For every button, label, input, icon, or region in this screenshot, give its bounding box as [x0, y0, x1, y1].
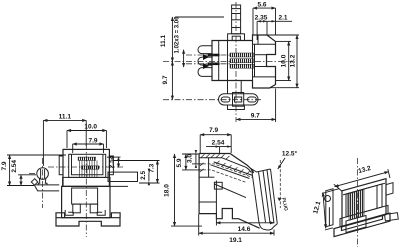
dim 7.9 left rotated — [1, 155, 66, 186]
contact block — [349, 190, 364, 221]
dim 13.2 right — [267, 35, 299, 88]
flange foot — [228, 105, 245, 110]
svg-text:2.5: 2.5 — [140, 171, 147, 180]
right lock bar — [108, 172, 138, 181]
dim 9.7 left — [162, 62, 172, 100]
contact hatch bands — [230, 53, 254, 68]
body internal verticals — [219, 35, 258, 81]
svg-text:10.0: 10.0 — [84, 124, 97, 131]
svg-text:10.0: 10.0 — [281, 54, 288, 67]
outer block — [342, 179, 386, 227]
svg-text:2.54: 2.54 — [212, 140, 225, 147]
jack opening inner — [72, 154, 103, 174]
svg-text:19.1: 19.1 — [229, 237, 242, 244]
contact dash line A — [203, 164, 253, 178]
svg-text:18.0: 18.0 — [164, 184, 171, 197]
dim 1.02x3=3.06 — [175, 16, 184, 67]
body outline — [199, 154, 260, 229]
latch circle V4 — [325, 196, 331, 202]
centerline V4 — [356, 158, 358, 247]
latch arm inner — [222, 158, 251, 173]
dim 11.1 — [43, 114, 86, 166]
jack opening — [69, 154, 106, 177]
top lip — [343, 183, 385, 195]
internal lines — [199, 158, 246, 214]
svg-text:13.2: 13.2 — [290, 54, 297, 67]
svg-text:14.6: 14.6 — [238, 226, 251, 233]
svg-text:9.7: 9.7 — [162, 75, 169, 84]
dim 2.54 left rotated — [11, 160, 36, 186]
latch hook — [31, 179, 38, 186]
base plate — [334, 213, 390, 237]
pin black bars — [203, 54, 220, 69]
right lock bar V4 — [385, 213, 399, 221]
svg-text:12.1: 12.1 — [312, 200, 322, 214]
dim 14.6 — [216, 219, 274, 233]
mounting flange (stadium) — [219, 93, 259, 107]
dim 18.0 rotated — [164, 154, 203, 226]
svg-text:11.1: 11.1 — [59, 114, 72, 121]
tab base — [228, 34, 245, 41]
latch piece inner line — [328, 207, 330, 226]
svg-text:13.2: 13.2 — [358, 165, 372, 175]
latch piece — [326, 189, 333, 227]
skewed front view group — [326, 172, 393, 239]
horizontal centerline — [48, 166, 124, 168]
contacts upper row — [78, 157, 96, 160]
neck below body — [228, 81, 242, 94]
bottom tab — [346, 215, 366, 232]
dim 3.0 rotated — [186, 150, 203, 168]
contacts lower row — [81, 166, 99, 169]
svg-text:3.0: 3.0 — [186, 154, 193, 163]
dim 5.6 — [253, 2, 276, 36]
plug face stack — [252, 169, 278, 230]
svg-text:5.6: 5.6 — [257, 2, 266, 9]
dim 9.7 bottom — [236, 89, 275, 123]
svg-text:11.1: 11.1 — [160, 34, 167, 47]
vertical centerline — [85, 144, 87, 237]
dim 7.9 — [200, 127, 231, 153]
latch circle — [37, 168, 49, 180]
contact wires — [80, 160, 98, 177]
PLUG label — [278, 197, 289, 212]
dim 7.9 top — [73, 137, 104, 153]
latch centerline horizontal — [29, 173, 36, 175]
base plate — [56, 213, 120, 226]
lower body opening — [72, 188, 98, 204]
contact band solid edges — [211, 162, 253, 179]
dim 13.2 V4 — [334, 165, 390, 192]
outer block — [63, 149, 109, 186]
jack opening — [346, 184, 382, 217]
svg-text:7.9: 7.9 — [209, 127, 218, 134]
svg-text:1.02x3 = 3.06: 1.02x3 = 3.06 — [175, 16, 181, 54]
dim 2.54 right rotated — [107, 155, 121, 168]
latch centerline vertical — [42, 158, 44, 208]
section hatch marks — [200, 154, 250, 175]
flange centerline — [163, 99, 263, 101]
svg-text:2.1: 2.1 — [278, 15, 287, 22]
body internal horizontals — [253, 44, 276, 77]
dim 2.5 rotated — [140, 169, 150, 186]
lower body — [62, 186, 110, 217]
svg-text:7.9: 7.9 — [88, 137, 97, 144]
latch base lines — [35, 185, 60, 191]
side tab left — [59, 156, 63, 175]
body outline — [212, 35, 276, 88]
mid band — [340, 205, 388, 226]
top lip line — [199, 157, 222, 159]
dim 10.0 — [67, 124, 106, 148]
dim 12.1 V4 — [312, 189, 339, 230]
tab — [232, 5, 241, 34]
dim 11.1 left — [160, 17, 224, 62]
lower inner rects — [73, 204, 81, 213]
contact dash line B — [203, 170, 247, 183]
svg-text:7.3: 7.3 — [149, 163, 156, 172]
dim 19.1 — [199, 214, 274, 244]
mid body band — [63, 177, 110, 186]
svg-text:12.5°: 12.5° — [282, 150, 298, 158]
dim 2.35 — [255, 15, 292, 41]
pin dash centerlines — [186, 55, 231, 64]
dim 2.54 — [206, 140, 231, 154]
base inner hooks — [65, 210, 105, 215]
inner walls — [347, 193, 349, 216]
svg-text:2.35: 2.35 — [255, 15, 268, 22]
svg-text:5.9: 5.9 — [176, 158, 183, 167]
line under lock bar — [110, 185, 128, 187]
dim 10.0 right — [276, 41, 292, 80]
dim 12.5 deg — [278, 150, 298, 209]
right small tab — [386, 183, 393, 195]
dim 5.9 rotated — [176, 154, 203, 170]
svg-text:9.7: 9.7 — [251, 112, 260, 119]
pin lobes — [198, 46, 212, 77]
svg-text:PLUG: PLUG — [280, 197, 289, 212]
latch neck — [38, 178, 47, 185]
svg-text:7.9: 7.9 — [1, 161, 8, 170]
vertical centerline — [235, 2, 237, 122]
side tab right — [109, 156, 113, 175]
horizontal centerline — [163, 61, 293, 63]
svg-text:2.54: 2.54 — [11, 160, 18, 173]
dim 7.3 rotated — [113, 161, 159, 184]
